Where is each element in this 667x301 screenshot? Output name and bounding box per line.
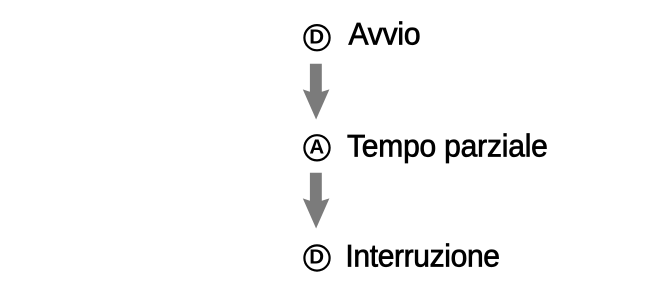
svg-text:A: A	[309, 136, 324, 159]
arrow 2 (Tempo parziale -> Interruzione)	[302, 171, 332, 231]
label Tempo parziale	[347, 129, 548, 165]
label Avvio	[349, 17, 421, 53]
node D (Interruzione) circled-letter symbol	[302, 243, 334, 275]
svg-text:D: D	[309, 26, 324, 49]
node D (Avvio) circled-letter symbol	[302, 23, 334, 55]
label Interruzione	[345, 239, 499, 275]
node A (Tempo parziale) circled-letter symbol	[302, 133, 334, 165]
arrow 1 (Avvio -> Tempo parziale)	[302, 62, 332, 122]
svg-text:D: D	[309, 246, 324, 269]
